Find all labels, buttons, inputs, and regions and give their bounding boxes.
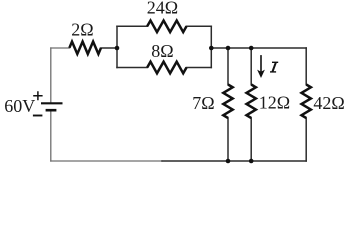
node dot bottom of 7-ohm (226, 159, 231, 164)
wire bottom-left return (light) (51, 160, 162, 162)
wire right vertical of parallel box (210, 26, 212, 67)
wire left vertical of parallel box (116, 26, 118, 67)
node dot bottom of 12-ohm (249, 159, 254, 164)
resistor 12-ohm (247, 85, 256, 119)
wire left vertical below battery (light) (50, 111, 52, 161)
label current I (math italic drawn) (270, 62, 278, 72)
svg-text:24Ω: 24Ω (147, 0, 178, 18)
battery V1 short plate (46, 109, 57, 112)
svg-text:42Ω: 42Ω (313, 93, 344, 113)
svg-text:60V: 60V (4, 96, 35, 116)
node dot top of 7-ohm (226, 46, 231, 51)
resistor 42-ohm (302, 85, 311, 119)
battery minus sign (33, 115, 43, 117)
wire main horizontal node B to right corner (211, 47, 306, 49)
svg-text:7Ω: 7Ω (192, 93, 214, 113)
wire left vertical above battery (light) (50, 48, 52, 102)
resistor 2-ohm (69, 42, 101, 54)
current arrow I (257, 55, 265, 78)
wire bottom branch of box (117, 67, 211, 69)
wire 12-ohm branch top lead (250, 48, 252, 85)
svg-text:2Ω: 2Ω (71, 20, 93, 40)
resistor 7-ohm (223, 85, 232, 119)
svg-text:12Ω: 12Ω (259, 93, 290, 113)
wire top branch of box (117, 25, 211, 27)
wire 7-ohm branch top lead (227, 48, 229, 85)
wire 12-ohm branch bottom lead (250, 118, 252, 161)
wire right vertical 42-ohm branch bottom lead (305, 118, 307, 161)
node dot top of 12-ohm (249, 46, 254, 51)
node dot at left of box (115, 46, 120, 51)
node dot at right of box (209, 46, 214, 51)
wire top-left horizontal lead to 2-ohm (light) (51, 47, 70, 49)
wire bottom return (dark part) (162, 160, 306, 162)
wire 7-ohm branch bottom lead (227, 118, 229, 161)
battery V1 long plate (41, 102, 63, 104)
wire right vertical 42-ohm branch top lead (305, 48, 307, 85)
svg-text:8Ω: 8Ω (151, 41, 173, 61)
resistor 24-ohm (147, 21, 186, 33)
battery plus sign (33, 91, 42, 100)
wire 2-ohm right lead to node A (101, 47, 117, 49)
resistor 8-ohm (147, 62, 186, 74)
